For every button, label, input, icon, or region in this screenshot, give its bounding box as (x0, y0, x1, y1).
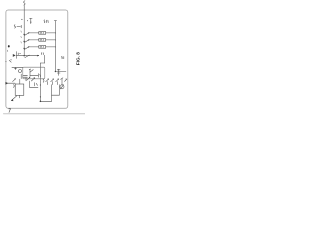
resistor R3 (39, 46, 46, 49)
label 84 (42, 53, 44, 55)
label 7 below border (9, 109, 11, 113)
wire left mid (5, 60, 22, 67)
label 800 top (24, 1, 25, 5)
transistor Q8 (46, 79, 49, 85)
capacitor C2 (21, 74, 27, 79)
transistor Q11 (65, 79, 67, 82)
node tick marks column (20, 31, 22, 43)
capacitor C1 (57, 69, 60, 75)
transistor Q3 row3 (23, 46, 38, 49)
current source I1 top (21, 18, 32, 23)
transistor Q10 (56, 79, 59, 85)
input arrow (5, 82, 15, 88)
transistor Q5 in box (29, 69, 40, 77)
wire row2 to right bus (46, 38, 56, 41)
transistor Q12 left (13, 78, 16, 81)
label 81 (14, 25, 21, 28)
block box B (23, 67, 45, 79)
wire row3 to right bus (46, 45, 56, 48)
page edge line (4, 113, 86, 115)
transistor Q2 row2 (23, 39, 38, 42)
rail box D (40, 85, 60, 103)
outer frame (6, 10, 68, 108)
node 51 label (61, 56, 63, 59)
current source I3 (60, 78, 64, 89)
current source I2 (15, 68, 22, 73)
label 810 (44, 20, 48, 23)
right bus vertical (54, 21, 56, 72)
small mark (7, 50, 9, 51)
resistor R2 (39, 39, 46, 42)
svg-text:FIG. 8: FIG. 8 (76, 52, 81, 65)
long vertical wire (39, 63, 41, 101)
amplifier box A (15, 79, 24, 98)
transistor Q1 row1 (23, 32, 38, 35)
wire row1 to right bus (46, 31, 56, 34)
diode D1 left (13, 52, 21, 59)
transistor Q9 (51, 79, 54, 85)
wire y63 jog (40, 55, 44, 63)
wire L gate (30, 81, 39, 87)
output wire right (55, 71, 66, 72)
node dot 8 left border (8, 45, 10, 47)
transistor Q7 (31, 78, 35, 82)
transistor Q4 row4 (17, 55, 39, 58)
resistor R1 (39, 32, 46, 35)
wire bus vertical (23, 5, 25, 55)
leader arrow 9 (11, 96, 17, 101)
transistor Q6 (26, 77, 30, 81)
arrow mark (40, 79, 44, 97)
